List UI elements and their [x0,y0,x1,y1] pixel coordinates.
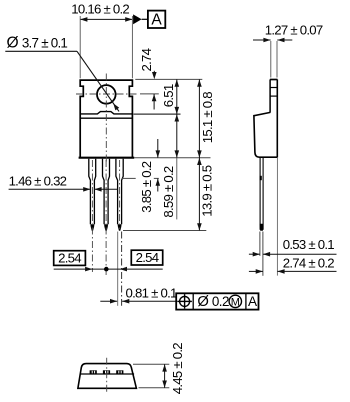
svg-text:6.51: 6.51 [161,84,176,107]
lead mark 3 [116,370,123,373]
boxed 2.54 left [54,251,86,266]
svg-text:Ø0.2: Ø0.2 [197,294,229,310]
svg-text:2.74 ± 0.2: 2.74 ± 0.2 [283,255,334,270]
svg-text:13.9 ± 0.5: 13.9 ± 0.5 [200,165,215,216]
tab bottom line with dimple [80,112,132,119]
side tab outline [270,80,278,158]
dim line 4.45 [164,364,166,388]
svg-text:1.46 ± 0.32: 1.46 ± 0.32 [9,173,67,188]
ext line tab bottom [134,113,181,115]
ext lines tab thickness [270,41,272,78]
svg-text:A: A [248,294,258,309]
lead 3 [116,159,123,225]
mounting hole [97,85,116,104]
ext line lead tips [123,230,206,232]
svg-text:3.85 ± 0.2: 3.85 ± 0.2 [139,161,154,212]
datum triangle [133,14,142,24]
svg-text:M: M [231,296,240,308]
side lead [259,157,261,229]
dim line 10.16 [80,18,132,20]
leader arrowhead [113,103,119,110]
svg-text:4.45 ± 0.2: 4.45 ± 0.2 [170,343,185,394]
dim line 1.27 [253,39,271,41]
lead mark 2 [103,370,110,373]
ext line lead shoulder [122,177,136,179]
svg-text:Ø 3.7 ± 0.1: Ø 3.7 ± 0.1 [7,35,68,52]
package tab and body outline [80,80,132,158]
origin dot [104,267,109,272]
bottom view outline [78,364,136,389]
leader line [77,51,119,111]
dim line 2.54 [54,268,163,270]
svg-text:0.81 ± 0.1: 0.81 ± 0.1 [126,285,177,300]
extension line left [79,16,81,78]
svg-text:2.74: 2.74 [139,48,154,71]
svg-text:0.53 ± 0.1: 0.53 ± 0.1 [283,237,334,252]
lead crimp mark [260,176,262,180]
svg-text:2.54: 2.54 [136,250,159,265]
dim 3.85 top arrow [157,139,159,158]
dim 3.85 bottom arrow [157,179,159,192]
svg-text:1.27 ± 0.07: 1.27 ± 0.07 [265,23,323,38]
svg-text:2.54: 2.54 [58,250,81,265]
extension line right / datum line [131,16,133,78]
lead edge extension lines [259,232,261,256]
side body outline [254,112,278,157]
ext line body bottom [134,157,211,159]
body bottom edge [79,157,135,159]
svg-text:10.16 ± 0.2: 10.16 ± 0.2 [71,2,129,17]
ext lines 4.45 [133,363,169,365]
lead 2 [103,159,110,225]
svg-text:A: A [151,12,162,29]
ext line hole center right [140,93,159,95]
datum box A [148,11,165,28]
FCF box [176,293,258,309]
leader shelf [5,50,77,52]
svg-text:8.59 ± 0.2: 8.59 ± 0.2 [161,166,176,217]
dim line 2.74 side [249,270,263,272]
position symbol [180,296,190,306]
bottom view mid line [80,373,134,375]
lead tip side [260,224,264,231]
svg-text:15.1 ± 0.8: 15.1 ± 0.8 [200,92,215,143]
ext line pkg top [135,78,202,80]
lead 1 [89,159,96,225]
circled M [229,295,241,307]
back surface extension [276,157,278,275]
bottom view centerline [106,358,108,393]
lead 3 edge extension lines [117,232,119,306]
dim line 1.46 [9,188,91,190]
horizontal centerline [76,93,137,95]
vertical centerline [105,74,107,163]
dim line 0.53 [249,253,260,255]
boxed 2.54 right [131,250,162,265]
dim line 0.81 [100,300,117,302]
lead mark 1 [90,370,97,373]
